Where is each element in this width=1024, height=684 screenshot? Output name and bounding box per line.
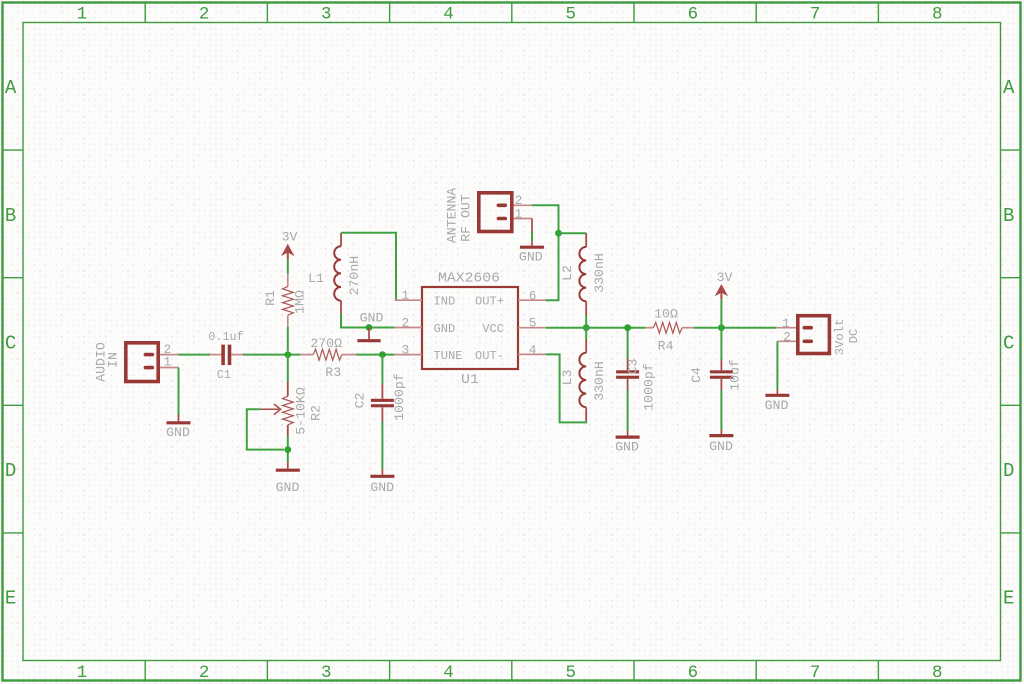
wire 3V to R1 [287, 259, 289, 274]
wire C4 to GND [720, 390, 722, 429]
wire C3 to GND [627, 390, 629, 431]
U1 pin 6 stub [518, 299, 546, 301]
U1 pin 5 stub [518, 327, 546, 329]
svg-text:GND: GND [519, 250, 543, 265]
ground GND audio [166, 415, 190, 441]
wire antenna pin2 to OUT+ [532, 205, 559, 300]
svg-text:3V: 3V [717, 270, 733, 285]
svg-text:330nH: 330nH [592, 253, 607, 293]
wire antenna pin1 to GND [531, 219, 533, 233]
AUDIO IN pin 2 stub [160, 354, 179, 356]
svg-text:GND: GND [360, 311, 384, 326]
connector 3Volt DC [798, 316, 830, 354]
junction J1 [284, 351, 291, 358]
junction J5 [555, 230, 562, 237]
svg-text:3: 3 [402, 343, 410, 358]
junction J2 [284, 446, 291, 453]
frame column labels top [77, 5, 943, 25]
wire audio net: C1 to R3 [243, 354, 300, 356]
wire C2 to GND [381, 422, 383, 470]
ground GND C2 [370, 469, 394, 495]
svg-text:5: 5 [565, 663, 576, 683]
resistor R1 [283, 274, 294, 327]
svg-text:B: B [1003, 205, 1014, 227]
inductor L3 [579, 328, 586, 421]
right ticks [1001, 150, 1022, 533]
svg-text:7: 7 [810, 663, 821, 683]
svg-text:2: 2 [199, 663, 210, 683]
bottom ticks [145, 661, 878, 682]
svg-text:E: E [1003, 587, 1014, 609]
junction J6 [583, 324, 590, 331]
svg-text:1000pf: 1000pf [392, 373, 407, 421]
svg-text:1MΩ: 1MΩ [293, 290, 308, 314]
svg-text:1: 1 [402, 288, 410, 303]
wire audio net: pin2 to C1 [179, 354, 211, 356]
U1 pin 1 stub [395, 299, 422, 301]
svg-text:3: 3 [321, 5, 332, 25]
svg-text:7: 7 [810, 5, 821, 25]
wire R1 to junction J1 [287, 327, 289, 351]
svg-text:OUT-: OUT- [475, 349, 504, 363]
svg-text:1000pf: 1000pf [642, 363, 657, 411]
svg-text:IN: IN [106, 352, 121, 368]
U1 pin 2 stub [395, 327, 422, 329]
svg-text:GND: GND [370, 480, 394, 495]
svg-text:A: A [5, 77, 17, 99]
wire 3V to VCC net [720, 299, 722, 327]
capacitor C3 [616, 359, 639, 391]
resistor R4 [645, 322, 694, 333]
wire VCC net from pin5 [546, 327, 645, 329]
svg-text:C: C [5, 332, 16, 354]
svg-text:D: D [5, 460, 16, 482]
U1 pin 3 stub [395, 354, 422, 356]
wire J1 down to R2 [287, 355, 289, 382]
wire L2 bottom to VCC net [585, 315, 587, 328]
wire L1 bottom to U1 pin2 [341, 314, 395, 328]
svg-text:GND: GND [765, 398, 789, 413]
svg-text:4: 4 [443, 663, 454, 683]
svg-text:5: 5 [529, 316, 537, 331]
svg-text:8: 8 [932, 663, 943, 683]
svg-text:GND: GND [434, 322, 456, 336]
trimmer resistor R2 [260, 382, 294, 437]
svg-text:A: A [1003, 77, 1015, 99]
wire pin1 down to GND [178, 368, 180, 417]
svg-text:U1: U1 [461, 372, 479, 388]
svg-text:C3: C3 [626, 359, 641, 375]
ground GND antenna [519, 241, 544, 264]
svg-text:5-10KΩ: 5-10KΩ [294, 387, 309, 435]
wire R4 to DC connector [694, 327, 776, 329]
wire J5 to L2 top [559, 232, 587, 234]
svg-text:1: 1 [77, 663, 88, 683]
wire L1 top to U1 pin1 [341, 233, 396, 301]
3Volt DC pin 2 stub [777, 340, 796, 342]
U1 pin 4 stub [518, 353, 546, 355]
svg-text:C2: C2 [353, 393, 368, 409]
top ticks [145, 3, 878, 23]
svg-text:R4: R4 [658, 339, 674, 354]
svg-text:R2: R2 [309, 405, 324, 421]
ground GND at U1 pin2 [357, 311, 383, 341]
frame row labels right [1003, 77, 1015, 609]
svg-text:C1: C1 [217, 368, 231, 382]
svg-text:R3: R3 [325, 365, 341, 380]
svg-text:3V: 3V [282, 230, 298, 245]
supply 3V right [716, 270, 732, 299]
svg-text:1: 1 [77, 5, 88, 25]
capacitor C2 [371, 384, 394, 422]
inductor L2 [579, 233, 586, 315]
svg-text:10uf: 10uf [728, 359, 743, 391]
svg-text:2: 2 [402, 316, 410, 331]
svg-text:DC: DC [847, 329, 861, 344]
svg-text:GND: GND [166, 425, 190, 440]
svg-text:0.1uf: 0.1uf [208, 330, 243, 344]
svg-text:TUNE: TUNE [434, 349, 463, 363]
svg-text:C4: C4 [689, 367, 704, 383]
svg-text:8: 8 [932, 5, 943, 25]
svg-text:GND: GND [276, 480, 300, 495]
capacitor C1 [210, 345, 243, 366]
svg-text:270nH: 270nH [347, 256, 362, 296]
3Volt DC pin 1 stub [776, 327, 796, 329]
svg-text:RF OUT: RF OUT [459, 194, 474, 242]
svg-text:5: 5 [565, 5, 576, 25]
connector ANTENNA RF OUT [479, 193, 512, 232]
capacitor C4 [710, 360, 733, 391]
svg-text:GND: GND [709, 439, 733, 454]
svg-text:GND: GND [615, 439, 639, 454]
svg-text:B: B [5, 205, 16, 227]
wire R2 bottom to junction J2 [287, 437, 289, 463]
svg-text:2: 2 [783, 330, 791, 345]
left ticks [3, 150, 24, 533]
connector J AUDIO IN [126, 343, 158, 382]
svg-text:E: E [5, 587, 16, 609]
AUDIO IN pin 1 stub [160, 367, 179, 369]
svg-text:L2: L2 [560, 265, 575, 281]
svg-text:ANTENNA: ANTENNA [444, 188, 459, 243]
wire C4 tap [720, 328, 722, 360]
frame column labels bottom [77, 663, 943, 683]
wire DC pin2 to GND [776, 341, 778, 389]
ANTENNA pin 1 stub [514, 218, 533, 220]
svg-text:270Ω: 270Ω [310, 336, 342, 351]
svg-text:3: 3 [321, 663, 332, 683]
junction J7 [624, 324, 631, 331]
svg-text:6: 6 [688, 5, 699, 25]
wire R2 wiper loop [247, 409, 284, 449]
svg-text:4: 4 [529, 343, 537, 358]
ground GND C4 [709, 429, 733, 454]
resistor R3 [300, 349, 356, 360]
wire L3 bottom to OUT- [546, 354, 587, 422]
ground GND R2 [276, 462, 300, 495]
svg-text:IND: IND [434, 294, 456, 308]
junction J8 [718, 324, 725, 331]
supply 3V left [282, 230, 298, 260]
svg-text:MAX2606: MAX2606 [438, 271, 500, 287]
ANTENNA pin 2 stub [514, 204, 533, 206]
svg-text:3Volt: 3Volt [833, 319, 847, 356]
svg-text:6: 6 [688, 663, 699, 683]
op-amp U1 MAX2606 [422, 271, 518, 388]
svg-text:6: 6 [529, 288, 537, 303]
svg-text:2: 2 [199, 5, 210, 25]
wire C3 tap [627, 328, 629, 359]
svg-text:R1: R1 [263, 290, 278, 306]
junction J3 [379, 351, 386, 358]
inductor L1 [334, 233, 341, 314]
wire R3 to pin3 net [356, 354, 395, 356]
svg-text:L1: L1 [308, 271, 324, 286]
ground GND DC [765, 389, 790, 413]
svg-text:VCC: VCC [482, 322, 504, 336]
wire J3 down to C2 [381, 355, 383, 384]
svg-text:C: C [1003, 332, 1014, 354]
svg-text:L3: L3 [560, 370, 575, 386]
junction J4 [366, 324, 373, 331]
svg-text:OUT+: OUT+ [475, 294, 504, 308]
svg-text:330nH: 330nH [592, 361, 607, 401]
svg-text:4: 4 [443, 5, 454, 25]
ground GND C3 [615, 431, 639, 455]
svg-text:10Ω: 10Ω [654, 306, 678, 321]
svg-text:D: D [1003, 460, 1014, 482]
frame row labels left [5, 77, 17, 609]
